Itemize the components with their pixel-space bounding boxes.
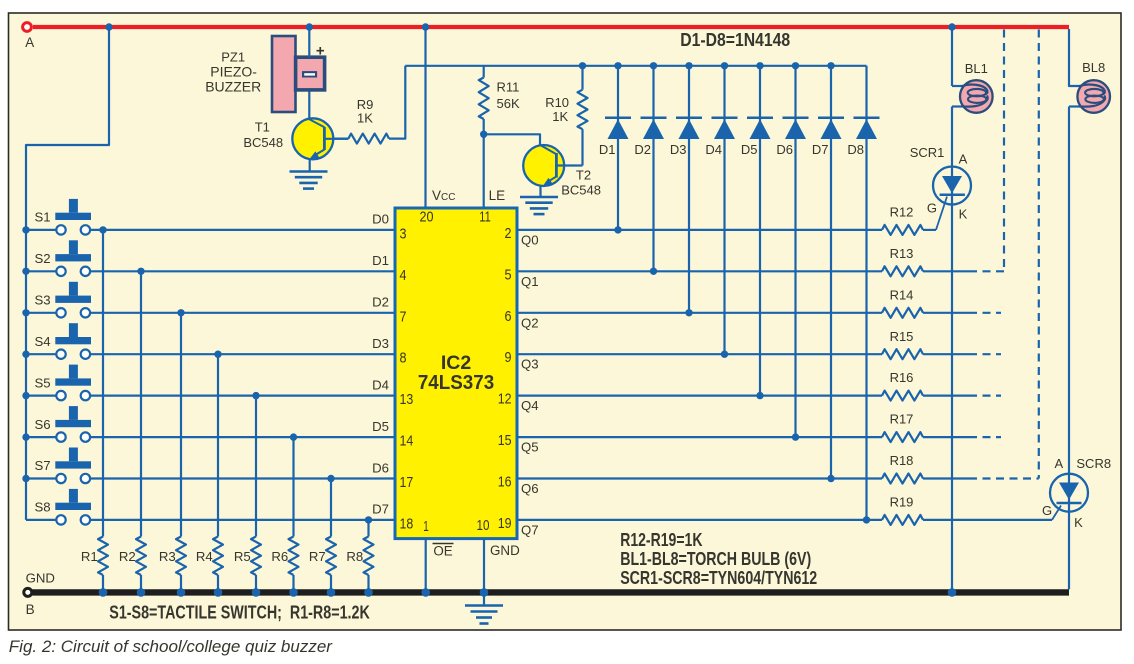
svg-text:R5: R5 [234, 549, 251, 564]
svg-text:BL1: BL1 [965, 61, 988, 76]
svg-text:17: 17 [400, 474, 414, 491]
svg-text:BL8: BL8 [1082, 60, 1105, 75]
svg-text:A: A [25, 35, 34, 50]
svg-text:R14: R14 [890, 287, 914, 302]
svg-text:Q5: Q5 [521, 440, 539, 455]
svg-text:S7: S7 [35, 458, 51, 473]
svg-text:20: 20 [420, 209, 434, 226]
svg-text:R1: R1 [81, 549, 98, 564]
svg-text:R4: R4 [196, 549, 213, 564]
svg-text:S2: S2 [35, 251, 51, 266]
svg-text:D3: D3 [372, 336, 389, 351]
svg-text:S4: S4 [35, 334, 51, 349]
svg-text:1K: 1K [552, 109, 568, 124]
svg-text:S3: S3 [35, 293, 51, 308]
svg-text:1: 1 [423, 518, 429, 535]
svg-text:R15: R15 [890, 329, 914, 344]
svg-text:16: 16 [498, 474, 512, 491]
svg-text:15: 15 [498, 432, 512, 449]
svg-text:R11: R11 [497, 80, 520, 95]
svg-text:BUZZER: BUZZER [205, 78, 261, 94]
svg-text:R6: R6 [271, 549, 288, 564]
svg-text:9: 9 [505, 349, 512, 366]
svg-text:D1: D1 [372, 253, 389, 268]
svg-text:6: 6 [505, 308, 512, 325]
svg-text:8: 8 [400, 350, 407, 367]
svg-text:SCR1: SCR1 [910, 145, 945, 160]
svg-text:D4: D4 [372, 377, 389, 392]
svg-text:R12-R19=1K: R12-R19=1K [620, 529, 703, 550]
svg-text:R18: R18 [890, 453, 914, 468]
svg-text:BC548: BC548 [243, 135, 283, 150]
svg-text:D1-D8=1N4148: D1-D8=1N4148 [680, 29, 790, 50]
svg-text:D2: D2 [372, 295, 389, 310]
svg-text:+: + [316, 42, 325, 59]
svg-text:2: 2 [505, 225, 512, 242]
svg-text:D3: D3 [670, 142, 687, 157]
svg-text:PIEZO-: PIEZO- [210, 63, 257, 79]
svg-text:13: 13 [400, 391, 414, 408]
svg-text:R8: R8 [346, 549, 363, 564]
svg-text:S5: S5 [35, 375, 51, 390]
svg-text:R13: R13 [890, 246, 914, 261]
svg-text:IC2: IC2 [441, 352, 472, 374]
svg-text:12: 12 [498, 391, 512, 408]
svg-text:1K: 1K [357, 110, 373, 125]
svg-text:5: 5 [505, 266, 512, 283]
svg-text:SCR1-SCR8=TYN604/TYN612: SCR1-SCR8=TYN604/TYN612 [620, 567, 817, 588]
svg-text:18: 18 [400, 515, 414, 532]
svg-text:7: 7 [400, 308, 407, 325]
svg-text:R7: R7 [309, 549, 326, 564]
svg-text:D5: D5 [741, 142, 758, 157]
svg-text:T1: T1 [255, 119, 270, 134]
svg-text:G: G [1042, 503, 1052, 518]
svg-text:D2: D2 [634, 142, 651, 157]
svg-text:Q1: Q1 [521, 274, 539, 289]
svg-text:S6: S6 [35, 417, 51, 432]
svg-text:19: 19 [498, 515, 512, 532]
svg-text:3: 3 [400, 225, 407, 242]
svg-text:Q3: Q3 [521, 357, 539, 372]
svg-text:R12: R12 [890, 205, 914, 220]
svg-text:4: 4 [400, 267, 407, 284]
svg-text:R17: R17 [890, 412, 914, 427]
svg-text:R10: R10 [545, 95, 569, 110]
svg-text:GND: GND [490, 543, 520, 558]
svg-text:S8: S8 [35, 500, 51, 515]
svg-text:14: 14 [400, 433, 414, 450]
svg-text:Q6: Q6 [521, 481, 539, 496]
svg-text:BC548: BC548 [561, 183, 601, 198]
svg-text:D8: D8 [847, 142, 864, 157]
svg-text:R16: R16 [890, 370, 914, 385]
svg-text:T2: T2 [576, 167, 591, 182]
svg-text:LE: LE [489, 188, 506, 203]
svg-text:Q4: Q4 [521, 398, 539, 413]
svg-text:R2: R2 [119, 549, 136, 564]
svg-text:D6: D6 [372, 460, 389, 475]
svg-text:OE: OE [433, 544, 452, 559]
svg-text:Q0: Q0 [521, 232, 539, 247]
svg-text:10: 10 [477, 517, 490, 534]
svg-text:D4: D4 [705, 142, 722, 157]
svg-text:G: G [927, 200, 937, 215]
svg-text:GND: GND [26, 571, 55, 586]
svg-text:R3: R3 [159, 549, 176, 564]
svg-text:SCR8: SCR8 [1076, 456, 1111, 471]
svg-text:K: K [1074, 515, 1083, 530]
svg-text:D5: D5 [372, 419, 389, 434]
svg-text:D0: D0 [372, 212, 389, 227]
svg-text:A: A [1054, 456, 1063, 471]
svg-text:D6: D6 [776, 142, 793, 157]
svg-text:74LS373: 74LS373 [418, 372, 494, 394]
svg-text:11: 11 [479, 209, 491, 226]
svg-text:Q2: Q2 [521, 315, 539, 330]
svg-text:Fig. 2: Circuit of school/coll: Fig. 2: Circuit of school/college quiz b… [9, 637, 333, 656]
svg-text:56K: 56K [497, 96, 520, 111]
svg-text:A: A [959, 152, 968, 167]
svg-text:D1: D1 [599, 142, 616, 157]
svg-text:S1-S8=TACTILE SWITCH; R1-R8=1: S1-S8=TACTILE SWITCH; R1-R8=1.2K [109, 602, 370, 623]
svg-text:R19: R19 [890, 495, 914, 510]
svg-text:K: K [959, 207, 968, 222]
svg-text:B: B [26, 602, 35, 617]
svg-text:D7: D7 [812, 142, 829, 157]
svg-text:PZ1: PZ1 [221, 49, 245, 64]
svg-text:Q7: Q7 [521, 522, 539, 537]
svg-text:D7: D7 [372, 502, 389, 517]
svg-text:S1: S1 [35, 210, 51, 225]
